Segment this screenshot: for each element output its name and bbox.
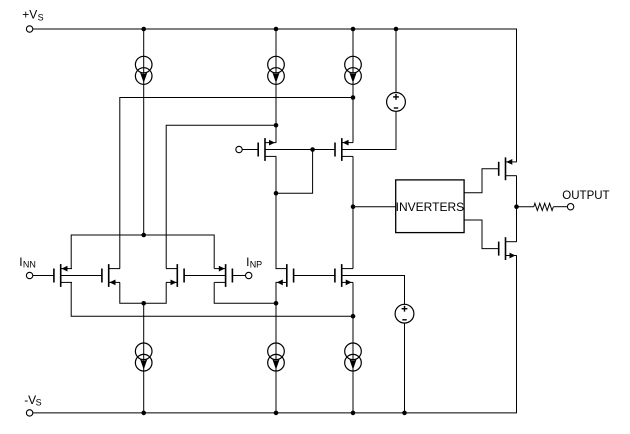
transistor M4 bbox=[214, 264, 232, 287]
svg-text:-V: -V bbox=[24, 393, 36, 407]
svg-text:NP: NP bbox=[250, 259, 263, 269]
junction top rail / V1 bbox=[394, 27, 399, 32]
junction bottom rail / I5 bbox=[274, 411, 279, 416]
junction tail 1 bbox=[141, 301, 146, 306]
label OUTPUT bbox=[562, 190, 609, 202]
junction bottom rail / V2 bbox=[402, 411, 407, 416]
wire M1 source rail bbox=[71, 282, 353, 316]
transistor M9 bbox=[499, 157, 517, 180]
transistor M5 bbox=[258, 138, 276, 161]
wire V2 to bottom rail bbox=[404, 323, 406, 413]
+Vs supply terminal bbox=[26, 26, 32, 32]
gate terminal of M5 bbox=[236, 146, 242, 152]
junction top rail / I3 bbox=[351, 27, 356, 32]
current source I6 bbox=[345, 343, 362, 371]
wire M4 gate lead bbox=[232, 275, 245, 277]
label -Vs bbox=[24, 393, 41, 408]
junction node A / I3 column bbox=[351, 95, 356, 100]
transistor M1 bbox=[54, 264, 72, 287]
wire M3 gate to M4 bulk bbox=[184, 275, 226, 277]
wire V1 to M6 bulk bbox=[342, 111, 396, 149]
wire +Vs top rail bbox=[33, 29, 517, 162]
wire V1 to top rail bbox=[395, 29, 397, 93]
wire feedback to gate line bbox=[276, 150, 313, 194]
junction output node bbox=[514, 204, 519, 209]
wire M3 source to tail bbox=[144, 282, 167, 303]
wire current-source column 1 bbox=[143, 29, 145, 235]
junction bottom rail / I6 bbox=[351, 411, 356, 416]
input terminal Inn bbox=[26, 272, 32, 278]
wire tail 1 to I4 bbox=[143, 303, 145, 413]
svg-text:+V: +V bbox=[22, 8, 37, 22]
junction node B / I2 column bbox=[274, 123, 279, 128]
wire M7 source column bbox=[275, 282, 277, 413]
transistor M6 bbox=[335, 138, 353, 161]
input terminal Inp bbox=[246, 272, 252, 278]
current source I2 bbox=[268, 56, 285, 84]
wire M2 source to tail bbox=[120, 282, 144, 303]
wire output lead bbox=[517, 206, 534, 208]
wire M8 bulk to V2 bbox=[342, 276, 405, 305]
wire current-source column 2 bbox=[275, 29, 277, 143]
wire M8 source column bbox=[352, 282, 354, 413]
current source I1 bbox=[135, 56, 152, 84]
junction node C / I1 column bbox=[141, 233, 146, 238]
wire M6 source column bbox=[352, 156, 354, 268]
junction M6 source / inverters bbox=[351, 204, 356, 209]
resistor R1 bbox=[534, 203, 554, 210]
svg-text:S: S bbox=[38, 13, 44, 23]
wire current-source column 3 bbox=[352, 29, 354, 143]
wire output column bbox=[516, 176, 518, 242]
transistor M7 bbox=[276, 264, 294, 287]
wire -Vs bottom rail bbox=[33, 256, 517, 413]
wire Inn gate lead bbox=[33, 275, 54, 277]
wire node B (M3 drain to I2) bbox=[166, 125, 276, 268]
label Inp bbox=[246, 255, 262, 269]
junction bottom rail / I4 bbox=[141, 411, 146, 416]
current source I3 bbox=[345, 56, 362, 84]
junction top rail / I1 bbox=[141, 27, 146, 32]
output terminal bbox=[567, 204, 573, 210]
wire inverters input bbox=[353, 206, 396, 208]
wire M5 bulk to M6 gate bbox=[265, 149, 335, 151]
junction M5 source / feedback bbox=[274, 191, 279, 196]
svg-text:S: S bbox=[36, 398, 42, 408]
wire resistor to output terminal bbox=[553, 206, 567, 208]
junction gate line bbox=[310, 147, 315, 152]
junction M1-source / M8 column bbox=[351, 314, 356, 319]
label +Vs bbox=[22, 8, 43, 23]
current source I4 bbox=[135, 343, 152, 371]
label Inn bbox=[19, 255, 36, 269]
-Vs supply terminal bbox=[26, 410, 32, 416]
transistor M2 bbox=[102, 264, 120, 287]
current source I5 bbox=[268, 343, 285, 371]
transistor M3 bbox=[166, 264, 184, 287]
svg-text:INVERTERS: INVERTERS bbox=[396, 200, 464, 214]
wire inverters to M9 gate bbox=[464, 169, 499, 193]
junction top rail / I2 bbox=[274, 27, 279, 32]
voltage source V2 bbox=[395, 304, 414, 323]
wire M1 bulk to M2 gate bbox=[61, 275, 102, 277]
junction tail 2 bbox=[274, 301, 279, 306]
block U1 INVERTERS bbox=[396, 180, 464, 233]
wire inverters to M10 gate bbox=[464, 220, 499, 249]
transistor M10 bbox=[499, 237, 517, 260]
wire M5 gate lead bbox=[242, 149, 258, 151]
wire M5 source column bbox=[275, 156, 277, 268]
svg-text:NN: NN bbox=[23, 259, 36, 269]
wire node C (M1 drain to M4 drain) bbox=[71, 235, 214, 269]
wire M7 gate to M8 gate bbox=[294, 275, 335, 277]
transistor M8 bbox=[335, 264, 353, 287]
wire M4 source to tail 2 bbox=[214, 282, 276, 303]
svg-text:OUTPUT: OUTPUT bbox=[562, 190, 609, 202]
voltage source V1 bbox=[387, 93, 406, 112]
wire node A (M2 drain to I3) bbox=[120, 98, 353, 269]
